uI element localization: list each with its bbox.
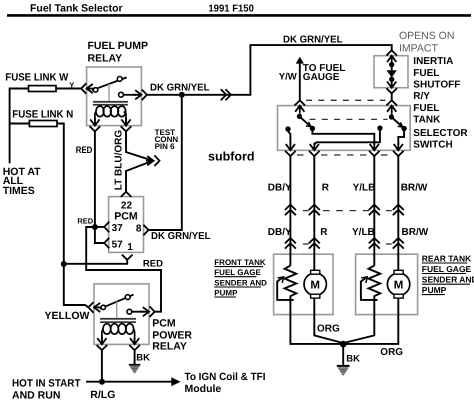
svg-text:GAUGE: GAUGE — [303, 72, 340, 83]
svg-text:POWER: POWER — [152, 329, 192, 341]
svg-text:SENDER AND: SENDER AND — [422, 275, 474, 285]
svg-text:BR/W: BR/W — [401, 182, 428, 193]
svg-text:R: R — [322, 182, 330, 193]
svg-text:PCM: PCM — [114, 211, 138, 223]
svg-text:subford: subford — [208, 149, 255, 163]
svg-text:SWITCH: SWITCH — [413, 140, 452, 151]
svg-text:Y: Y — [69, 80, 74, 89]
svg-text:To IGN Coil & TFI: To IGN Coil & TFI — [185, 371, 266, 383]
svg-text:57: 57 — [112, 239, 124, 250]
svg-text:37: 37 — [112, 223, 124, 234]
svg-text:PCM: PCM — [152, 318, 176, 330]
svg-text:Y/LB: Y/LB — [353, 182, 376, 193]
svg-text:TANK: TANK — [413, 115, 441, 126]
svg-text:OPENS ON: OPENS ON — [399, 30, 454, 42]
svg-text:BR/W: BR/W — [402, 227, 429, 238]
svg-text:M: M — [310, 279, 320, 291]
svg-text:FUEL GAGE: FUEL GAGE — [214, 268, 261, 277]
svg-text:SELECTOR: SELECTOR — [413, 128, 468, 139]
svg-text:1: 1 — [127, 242, 133, 253]
svg-text:LT BLU/ORG: LT BLU/ORG — [114, 130, 125, 191]
svg-text:8: 8 — [136, 223, 142, 234]
svg-text:HOT IN START: HOT IN START — [12, 377, 81, 389]
svg-text:FUSE LINK W: FUSE LINK W — [5, 72, 68, 84]
svg-text:INERTIA: INERTIA — [413, 56, 453, 67]
svg-text:R/Y: R/Y — [413, 91, 430, 102]
svg-text:DB/Y: DB/Y — [268, 182, 292, 193]
svg-text:Y/W: Y/W — [279, 71, 297, 82]
svg-text:DK GRN/YEL: DK GRN/YEL — [151, 231, 211, 242]
svg-text:DK GRN/YEL: DK GRN/YEL — [150, 83, 210, 94]
svg-text:R: R — [320, 227, 328, 238]
svg-text:M: M — [394, 279, 404, 291]
svg-text:YELLOW: YELLOW — [45, 310, 90, 322]
svg-text:PUMP: PUMP — [422, 285, 447, 295]
svg-text:ORG: ORG — [380, 347, 403, 358]
svg-text:RELAY: RELAY — [152, 341, 187, 353]
svg-text:FUEL: FUEL — [413, 68, 439, 79]
svg-text:DK GRN/YEL: DK GRN/YEL — [283, 34, 343, 45]
svg-text:BK: BK — [136, 352, 150, 363]
svg-text:ORG: ORG — [317, 323, 340, 334]
svg-text:TIMES: TIMES — [3, 185, 35, 197]
svg-text:FUEL PUMP: FUEL PUMP — [88, 40, 148, 52]
svg-text:FRONT TANK: FRONT TANK — [214, 258, 266, 267]
svg-text:RED: RED — [76, 145, 93, 156]
svg-text:AND RUN: AND RUN — [12, 389, 60, 401]
svg-text:FUEL: FUEL — [413, 103, 439, 114]
svg-text:Module: Module — [185, 383, 222, 395]
svg-text:FUSE LINK N: FUSE LINK N — [12, 109, 73, 121]
svg-text:RED: RED — [77, 216, 93, 225]
svg-text:RED: RED — [143, 258, 163, 269]
svg-text:R/LG: R/LG — [90, 389, 115, 401]
svg-text:PUMP: PUMP — [214, 289, 238, 298]
svg-text:SHUTOFF: SHUTOFF — [413, 80, 460, 91]
svg-text:Y/LB: Y/LB — [352, 227, 375, 238]
svg-text:RELAY: RELAY — [88, 53, 123, 65]
svg-text:REAR TANK: REAR TANK — [422, 254, 472, 264]
svg-text:FUEL GAGE: FUEL GAGE — [422, 264, 472, 274]
svg-text:IMPACT: IMPACT — [399, 42, 438, 54]
svg-text:PIN 6: PIN 6 — [155, 142, 176, 151]
svg-text:DB/Y: DB/Y — [268, 227, 292, 238]
svg-text:BK: BK — [346, 354, 360, 365]
svg-text:1991 F150: 1991 F150 — [208, 4, 254, 15]
svg-text:SENDER AND: SENDER AND — [214, 279, 267, 288]
svg-text:Fuel Tank Selector: Fuel Tank Selector — [30, 3, 123, 15]
